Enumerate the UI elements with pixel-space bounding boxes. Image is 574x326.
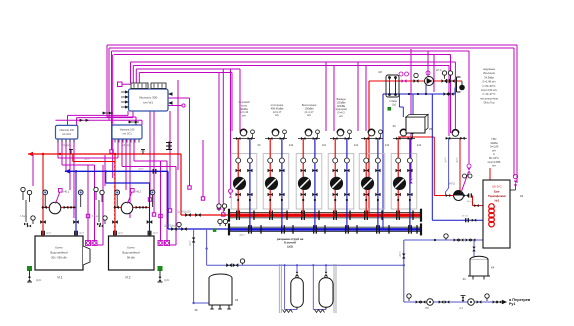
supply header: [229, 212, 421, 214]
boiler 1 safety group: [22, 190, 24, 201]
circulation pump of group К14: [393, 177, 405, 189]
svg-text:ГВС: ГВС: [492, 137, 497, 141]
circulation pump of group К10: [265, 177, 277, 189]
feed to tank K5: [398, 94, 400, 107]
svg-text:Ду50: Ду50: [457, 157, 459, 163]
bus A left drop 1 feeding controller B: [106, 45, 108, 117]
svg-text:Бак-: Бак-: [494, 190, 500, 194]
svg-text:(1у1: (1у1: [392, 104, 397, 106]
DHW tank Termoflux: [483, 180, 510, 248]
network connection bracket: [456, 77, 458, 92]
left weave horizontals: [58, 157, 118, 159]
svg-text:Водогрейный: Водогрейный: [50, 251, 68, 255]
group К13 lower valves: [364, 193, 369, 197]
burner sense lines boiler 1: [87, 165, 89, 241]
header pressure gauges: [218, 206, 220, 211]
svg-text:4,1: 4,1: [459, 307, 463, 310]
svg-text:Ду80: Ду80: [239, 235, 245, 237]
boiler 2 burner indicators: [158, 241, 163, 246]
boiler 1 drain: [28, 267, 32, 271]
circulation pump of group К11: [298, 177, 310, 189]
svg-text:Н6.1: Н6.1: [64, 190, 70, 194]
top-right return pipe: [383, 93, 455, 95]
svg-text:34,5кВм: 34,5кВм: [484, 75, 494, 79]
bus B drops to group 1 actuators: [239, 69, 241, 131]
DHW tank heating coil: [489, 204, 495, 210]
bus B right drops to DHW actuator: [454, 62, 456, 130]
controller wire to sensor right of group 1: [168, 97, 190, 99]
pump H7.4: [425, 77, 434, 86]
svg-text:К12: К12: [354, 144, 359, 147]
svg-text:3 бара: 3 бара: [389, 100, 397, 103]
expansion vessel 1: [296, 265, 298, 272]
svg-text:Ду50: Ду50: [445, 157, 447, 163]
svg-text:(2–4,17: (2–4,17: [305, 110, 314, 114]
mid sensor lines with terminators: [149, 111, 151, 198]
circulation pump of group К9: [233, 177, 245, 189]
red branch for future boiler (dashed drop): [72, 154, 74, 162]
controller Vitotronic 100 no.2: [112, 125, 142, 139]
svg-text:м/ч: м/ч: [242, 114, 247, 118]
green drain mark under K5 feed: [388, 108, 391, 111]
svg-text:Термофлюкс: Термофлюкс: [488, 194, 506, 198]
return connection to bottom header: [168, 228, 229, 230]
svg-text:80–60°C: 80–60°C: [489, 156, 499, 160]
control bus A line 2: [109, 47, 514, 49]
svg-text:34: 34: [392, 124, 396, 128]
sensor drop crossing supply trunk: [177, 80, 179, 170]
control bus B line 2: [133, 65, 449, 67]
magenta valve beside group 1 pump: [230, 69, 232, 189]
bus B left drops into controller terminals: [130, 62, 132, 83]
stub from pump row: [425, 85, 427, 94]
control bus A line 3: [112, 50, 470, 52]
svg-text:м/ч: м/ч: [275, 113, 280, 117]
svg-text:Ду100Ду100: Ду100Ду100: [164, 226, 178, 228]
svg-text:49К,45кВм: 49К,45кВм: [271, 106, 284, 110]
trunk thermowells: [70, 150, 72, 155]
group К9 lower valves: [236, 193, 241, 197]
svg-text:Ду100Ду100: Ду100Ду100: [177, 212, 191, 214]
V300 left connector arrows: [121, 91, 129, 93]
riser from group 5 to roof circuit: [368, 81, 370, 214]
boiler 1 supply riser: [42, 154, 44, 236]
svg-text:34: 34: [462, 277, 466, 281]
boiler 2 shunt pump H6.2: [121, 202, 133, 214]
svg-text:Vitotronic 100: Vitotronic 100: [59, 129, 74, 132]
svg-text:м/ч: м/ч: [492, 164, 497, 168]
svg-text:Ду50: Ду50: [400, 251, 402, 257]
svg-text:К14: К14: [417, 144, 422, 147]
mixing/pump group К12: [328, 154, 354, 209]
flue symbol: [168, 142, 170, 151]
svg-text:DНш Тор: DНш Тор: [484, 101, 495, 105]
boiler 2 supply riser: [114, 154, 116, 236]
supply connection to top header: [181, 214, 229, 216]
svg-text:Ду80: Ду80: [140, 151, 146, 153]
boiler 2: [109, 236, 155, 270]
svg-text:К13: К13: [385, 144, 390, 147]
svg-text:Ру1: Ру1: [509, 302, 515, 306]
squares on burner sense lines: [86, 214, 89, 217]
return header: [229, 226, 421, 228]
svg-text:Н6.2: Н6.2: [136, 190, 142, 194]
svg-text:К11: К11: [322, 144, 327, 147]
svg-text:2Ду40Ду: 2Ду40Ду: [62, 145, 72, 147]
svg-text:м/ч: м/ч: [492, 148, 497, 152]
V300 wires down to sub-controllers: [127, 111, 129, 115]
controller Vitotronic 100 no.1: [56, 125, 78, 139]
svg-text:Ду65: Ду65: [46, 233, 52, 235]
svg-text:Н7.4: Н7.4: [436, 68, 442, 72]
svg-text:t= 40–37°C: t= 40–37°C: [482, 92, 495, 96]
mixing/pump group К11: [296, 154, 322, 209]
svg-text:Ду65: Ду65: [153, 233, 159, 235]
group К12 lower valves: [333, 193, 338, 197]
motor valve K2: [513, 174, 517, 178]
svg-text:Ду65: Ду65: [79, 233, 85, 235]
svg-text:Gср=3,93 м/ч: Gср=3,93 м/ч: [481, 88, 498, 92]
svg-text:Н7.5: Н7.5: [450, 183, 456, 186]
boiler 2 return drop: [149, 183, 151, 236]
expansion vessel separators: [278, 264, 280, 313]
svg-text:Ду80: Ду80: [138, 168, 144, 170]
controller Vitotronic 300: [129, 89, 169, 111]
trunk junction dots: [42, 153, 44, 155]
svg-text:Изоляция: Изоляция: [483, 71, 495, 75]
DHW primary supply: [398, 136, 434, 138]
svg-text:К2: К2: [520, 194, 524, 198]
svg-text:Ду32: Ду32: [164, 280, 170, 282]
svg-text:40кВм: 40кВм: [240, 107, 248, 111]
svg-text:Котел: Котел: [55, 246, 63, 250]
svg-text:G=1,48 м/ч: G=1,48 м/ч: [482, 80, 496, 84]
svg-text:К3: К3: [235, 298, 239, 302]
svg-text:44кВм: 44кВм: [490, 141, 498, 145]
boiler 2 safety group: [95, 190, 97, 201]
DHW pump discharge to tank coil: [464, 194, 468, 197]
controller stub with circle terminator: [168, 105, 182, 107]
svg-text:3 бара: 3 бара: [92, 216, 100, 218]
svg-text:102кВм: 102кВм: [337, 100, 346, 104]
svg-text:G=1,89: G=1,89: [490, 145, 499, 149]
overheat discharge run: [404, 301, 502, 303]
DHW group actuator valve: [445, 137, 466, 139]
discharge run fittings: [408, 296, 410, 301]
svg-text:тип GC1: тип GC1: [62, 133, 72, 136]
svg-text:Ду65: Ду65: [118, 233, 124, 235]
svg-text:К5: К5: [429, 127, 433, 131]
svg-text:И.1: И.1: [58, 276, 63, 280]
svg-text:(20кВм: (20кВм: [337, 104, 346, 108]
boiler return trunk: [65, 170, 168, 172]
svg-text:Фасады: Фасады: [336, 97, 346, 101]
return riser between groups: [382, 94, 384, 230]
boiler 1 shunt pump H6.1: [49, 202, 61, 214]
DHW group circulation pipe: [448, 139, 450, 188]
svg-text:подогрев): подогрев): [335, 107, 347, 111]
group К11 lower valves: [301, 193, 306, 197]
control bus B line 1: [131, 61, 456, 63]
svg-text:теплоносители: теплоносители: [480, 97, 499, 100]
mixing/pump group К9: [231, 154, 257, 209]
bus A right drop to DHW actuator: [450, 55, 452, 134]
svg-text:Водогрейный: Водогрейный: [122, 251, 140, 255]
svg-text:И.2: И.2: [126, 276, 131, 280]
svg-text:G=4,17: G=4,17: [273, 110, 282, 114]
burner sense lines boiler 2: [160, 161, 162, 241]
mixing/pump group К14: [391, 154, 417, 209]
boiler 2 pump line: [114, 206, 150, 208]
svg-text:301–350 кВт: 301–350 кВт: [51, 256, 68, 260]
bus A drops to pump row: [427, 51, 429, 77]
svg-text:45×3,5: 45×3,5: [462, 215, 469, 218]
svg-text:м/ч: м/ч: [307, 113, 312, 117]
boiler 1 return drop: [75, 171, 77, 236]
svg-text:тип W1: тип W1: [143, 101, 153, 105]
cold water inlet line: [404, 239, 483, 241]
svg-text:м/ч: м/ч: [339, 114, 344, 118]
svg-text:45×3,5: 45×3,5: [467, 200, 474, 203]
bus A left drop 4: [112, 55, 114, 179]
svg-text:Ду50: Ду50: [84, 159, 90, 161]
svg-text:t= 80–60°C: t= 80–60°C: [482, 84, 495, 88]
boiler 1: [35, 236, 83, 270]
bus A right drop 2 to valve K2: [513, 48, 515, 176]
mixing/pump group К13: [359, 154, 385, 209]
pump row thermometers: [444, 73, 446, 79]
pump row motor valves: [399, 72, 403, 76]
svg-text:Н8: Н8: [378, 70, 382, 74]
svg-text:98 кВт: 98 кВт: [127, 256, 136, 260]
control bus A line 1: [107, 44, 517, 46]
DHW pump sensor diagonal: [461, 172, 469, 193]
boiler 1 burner indicators: [86, 241, 91, 246]
svg-text:G=4,3: G=4,3: [337, 111, 345, 115]
svg-text:Vitotronic 100: Vitotronic 100: [120, 129, 135, 132]
circulation pump of group К12: [330, 177, 342, 189]
bus A left drop 3: [111, 51, 113, 150]
left control weave verticals from controller A: [57, 139, 59, 158]
expansion vessel 2: [325, 265, 327, 272]
svg-text:Gср=0,686: Gср=0,686: [488, 160, 501, 164]
return header flanges: [248, 225, 249, 234]
stub to expansion tank K4: [473, 240, 475, 258]
svg-text:Ду32: Ду32: [36, 280, 42, 282]
svg-text:№1: №1: [495, 199, 500, 203]
bus A right drop to valve K2: [516, 45, 518, 183]
svg-text:наружные: наружные: [483, 68, 496, 71]
DHW loading pump H7.5: [454, 191, 464, 201]
bus A right drop to DHW motor valve: [468, 51, 470, 164]
svg-text:(х3): (х3): [287, 244, 292, 248]
V300 right connector arrows: [168, 92, 173, 96]
bus drops to mixing groups 4-5: [325, 62, 327, 131]
Vitotronic 300 connector square: [118, 82, 123, 87]
svg-text:36: 36: [194, 308, 198, 312]
expansion vessel 1 drain: [284, 265, 286, 309]
boiler 1 pump line: [42, 206, 76, 208]
green drain mark near header: [213, 229, 215, 232]
svg-text:тип GC1: тип GC1: [122, 133, 132, 136]
boiler 2 drain: [158, 267, 162, 271]
svg-text:60–5°C: 60–5°C: [492, 185, 501, 189]
make-up drop to storage tank K3: [193, 229, 195, 303]
expansion vessel 2 drain: [312, 265, 314, 309]
group К10 lower valves: [268, 193, 273, 197]
buffer tank K5: [406, 117, 425, 133]
svg-text:190кВм: 190кВм: [305, 106, 314, 110]
svg-text:G=1,44: G=1,44: [240, 110, 249, 114]
svg-text:К10: К10: [289, 144, 294, 147]
magenta long drop to valve near K5: [410, 49, 412, 178]
cold water main riser: [403, 240, 405, 302]
DHW motor valve and gauges: [467, 164, 471, 168]
svg-text:тепловой: тепловой: [238, 100, 250, 104]
roof-circuit pump row frame H8: [386, 75, 399, 97]
mixing/pump group К10: [263, 154, 289, 209]
boiler supply trunk: [28, 153, 181, 155]
group К14 lower valves: [396, 193, 401, 197]
boiler thermometers: [44, 192, 46, 207]
inter-controller link arrows: [102, 112, 113, 114]
svg-text:Vitotronic 300: Vitotronic 300: [139, 96, 158, 100]
storage tank K3: [209, 274, 232, 282]
control bus B line 4: [139, 72, 232, 74]
left control weave verticals from controller B: [117, 139, 119, 158]
make-up line to expansion vessels: [206, 229, 208, 265]
svg-text:Вентиляция: Вентиляция: [302, 103, 317, 107]
pump row valves: [414, 73, 418, 77]
top-right primary supply pipe: [369, 80, 462, 82]
control bus B line 3: [136, 68, 240, 70]
DHW group red pipe to pump: [459, 139, 461, 191]
DHW loading return: [431, 94, 433, 220]
svg-text:К4: К4: [491, 266, 495, 270]
circulation pump of group К13: [361, 177, 373, 189]
return branch to boiler 2: [105, 171, 107, 183]
supply header flanges: [236, 210, 237, 220]
bus A left drop 2 feeding controller B: [108, 48, 110, 120]
DHW tank hot outlet stub: [489, 168, 491, 180]
svg-text:2Ду40Ду: 2Ду40Ду: [122, 145, 132, 147]
expansion tank K4: [470, 256, 488, 262]
control bus A line 4: [114, 54, 451, 56]
svg-text:Котел: Котел: [127, 246, 135, 250]
svg-text:3 бара: 3 бара: [20, 216, 28, 218]
svg-text:Ду50: Ду50: [190, 240, 192, 246]
